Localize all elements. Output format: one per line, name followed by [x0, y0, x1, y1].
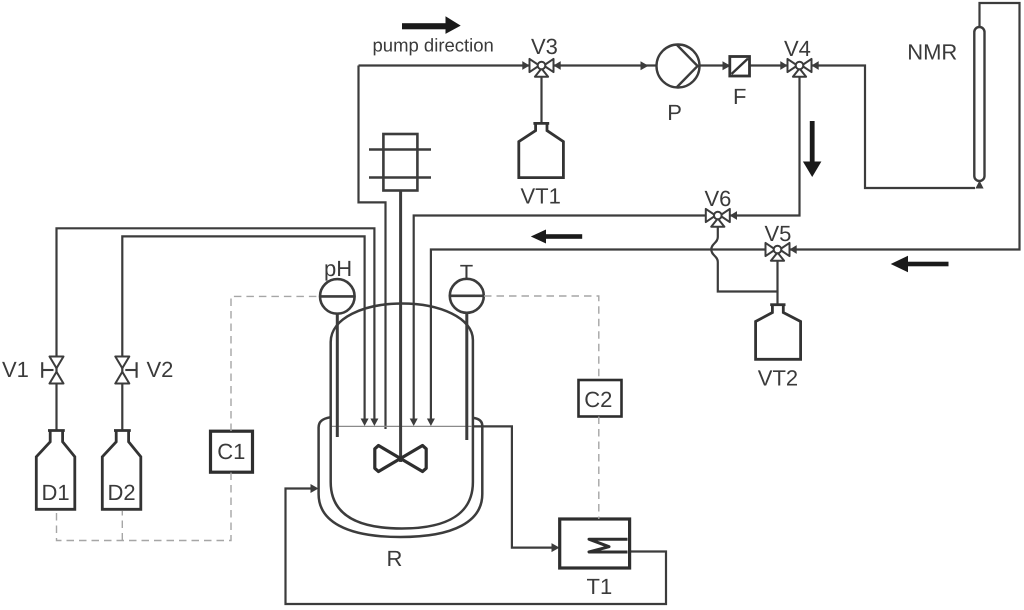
- svg-text:T1: T1: [587, 574, 613, 599]
- svg-text:pump direction: pump direction: [373, 35, 494, 56]
- svg-text:V2: V2: [147, 357, 174, 382]
- svg-text:D1: D1: [42, 480, 70, 505]
- svg-text:pH: pH: [324, 256, 352, 281]
- svg-text:V1: V1: [2, 357, 29, 382]
- svg-text:T: T: [460, 260, 473, 285]
- svg-text:V4: V4: [784, 36, 811, 61]
- svg-text:C1: C1: [217, 439, 245, 464]
- svg-text:F: F: [733, 84, 746, 109]
- svg-text:VT1: VT1: [521, 184, 561, 209]
- svg-text:V5: V5: [765, 221, 792, 246]
- svg-text:V6: V6: [705, 186, 732, 211]
- svg-text:C2: C2: [584, 387, 612, 412]
- svg-text:NMR: NMR: [907, 39, 957, 64]
- svg-text:VT2: VT2: [758, 366, 798, 391]
- svg-text:P: P: [667, 100, 682, 125]
- svg-text:V3: V3: [531, 34, 558, 59]
- svg-text:D2: D2: [108, 480, 136, 505]
- svg-text:R: R: [387, 546, 403, 571]
